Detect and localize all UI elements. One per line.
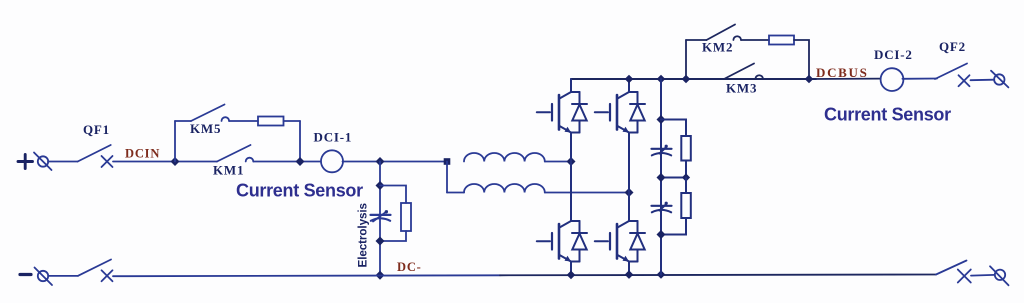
- node junction: [657, 115, 666, 124]
- Q3 channel bar: [558, 224, 561, 259]
- Q1 collector diagonal: [560, 92, 572, 99]
- Q4 emitter arrow: [623, 256, 630, 262]
- diode D4 triangle: [630, 234, 644, 250]
- wire: [447, 192, 464, 194]
- Q1 collector riser: [570, 79, 572, 92]
- inductor L1 (top): [464, 153, 545, 162]
- capacitor C2 bottom plate (curved): [652, 210, 671, 212]
- wire: [253, 161, 321, 163]
- node - (negative input terminal label): [20, 273, 31, 276]
- transistor Q2 (top-right IGBT with diode D2): [595, 79, 645, 193]
- terminal X3+ slash: [991, 71, 1008, 88]
- breaker QF2 contact x: [959, 75, 970, 86]
- wire: [902, 78, 937, 80]
- wire: [113, 161, 217, 163]
- Q4 collector riser: [628, 193, 630, 222]
- bottom rail left segment: [113, 274, 500, 277]
- resistor R5 (KM2 branch): [769, 36, 794, 45]
- wire: [48, 161, 78, 163]
- node junction: [657, 230, 666, 239]
- Q3 collector diagonal: [560, 221, 572, 228]
- wire resistor R3 branch: [661, 120, 686, 137]
- wire: [661, 161, 686, 178]
- Q2 emitter riser: [628, 133, 630, 193]
- wire: [48, 275, 78, 277]
- svg-text:DCIN: DCIN: [125, 146, 160, 160]
- wire KM2 riser: [685, 40, 687, 79]
- svg-text:DCI-1: DCI-1: [314, 130, 353, 145]
- Q1 emitter arrow: [565, 127, 572, 133]
- terminal X4- circle: [995, 270, 1005, 280]
- resistor R1 (KM5 pre-charge): [258, 117, 284, 126]
- diode D4 cathode bar: [630, 232, 645, 234]
- node junction rail KM2 riser: [682, 75, 691, 84]
- current sensor DCI-1 circle: [321, 150, 343, 172]
- breaker QF2- contact x: [958, 270, 971, 283]
- node junction: [296, 157, 305, 166]
- contactor KM1 fixed contact: [246, 158, 254, 162]
- diode D2 triangle: [630, 105, 644, 121]
- diode D1 cathode lead: [579, 92, 581, 104]
- node junction on bottom rail: [376, 271, 385, 280]
- Q3 gate lead: [537, 240, 550, 242]
- terminal X1+ slash: [34, 153, 52, 171]
- IGBT bridge: [537, 75, 691, 280]
- capacitor Electrolysis top plate: [371, 214, 391, 216]
- breaker QF1 blade: [78, 145, 111, 162]
- contactor KM3 blade: [724, 64, 754, 80]
- wire: [794, 40, 809, 79]
- DC link capacitor bank: [652, 79, 691, 275]
- breaker QF2- blade: [936, 261, 967, 275]
- bottom DC- rail: [113, 275, 936, 277]
- Q3 collector riser: [570, 162, 572, 222]
- Q3 bottom tie: [571, 261, 580, 263]
- Q2 bottom tie: [629, 132, 638, 134]
- wire fork riser: [446, 162, 448, 193]
- resistor R3: [681, 136, 691, 161]
- Q4 top tie: [629, 220, 638, 222]
- Q3 emitter diagonal: [560, 255, 572, 262]
- diode D2 anode lead: [637, 121, 639, 133]
- wire: [343, 161, 448, 163]
- Q4 gate lead: [595, 240, 608, 242]
- terminal X1+ circle: [38, 156, 48, 166]
- wire resistor branch top: [380, 186, 406, 204]
- Q4 gate bar: [609, 233, 611, 250]
- contactor KM5 fixed contact: [222, 117, 230, 121]
- Q3 gate bar: [551, 233, 553, 250]
- svg-text:DCBUS: DCBUS: [816, 65, 869, 80]
- terminal X2- slash: [35, 268, 53, 286]
- contactor KM1 blade: [217, 145, 251, 162]
- wire riser down: [299, 121, 301, 162]
- capacitor Electrolysis bottom plate (curved): [371, 218, 390, 221]
- svg-text:KM1: KM1: [213, 162, 244, 177]
- Q3 emitter riser: [570, 262, 572, 275]
- Q1 gate lead: [537, 111, 550, 113]
- Q3 emitter arrow: [565, 256, 572, 262]
- top DC+ rail: [571, 78, 816, 80]
- wire: [229, 120, 258, 122]
- svg-text:KM2: KM2: [702, 39, 733, 54]
- Q4 collector diagonal: [618, 221, 630, 228]
- contactor KM5 blade: [191, 105, 225, 122]
- Q4 channel bar: [616, 224, 619, 259]
- capacitor C2 top plate: [652, 205, 672, 207]
- svg-text:KM5: KM5: [190, 121, 221, 136]
- wire riser to KM5 branch: [174, 121, 176, 162]
- wire: [284, 120, 301, 122]
- svg-text:DCI-2: DCI-2: [874, 47, 913, 62]
- Q2 gate bar: [609, 104, 611, 121]
- Q2 emitter diagonal: [618, 126, 630, 133]
- capacitor C1 polarity arrow: [660, 147, 667, 154]
- node junction: [171, 157, 180, 166]
- current sensor DCI-2 circle: [881, 68, 904, 91]
- terminal X4- slash: [990, 266, 1009, 285]
- resistor R2 (discharge): [401, 203, 411, 231]
- breaker QF1- contact x: [102, 270, 113, 281]
- diode D2 cathode bar: [630, 103, 645, 105]
- wire electrolysis vertical: [379, 162, 381, 277]
- Q4 bottom tie: [629, 261, 638, 263]
- Q2 top tie: [629, 91, 638, 93]
- Q2 collector diagonal: [618, 92, 630, 99]
- Q1 channel bar: [558, 95, 561, 130]
- breaker QF1 contact x: [102, 156, 113, 167]
- wire KM5 branch lead: [175, 120, 191, 122]
- diode D1 anode lead: [579, 121, 581, 133]
- wire resistor R4 branch: [685, 178, 687, 194]
- inductor L2 (bottom): [464, 184, 545, 193]
- diode D4 anode lead: [637, 250, 639, 262]
- bottom-right output switch: [936, 261, 1009, 286]
- transistor Q4 (bottom-right IGBT with diode D4): [595, 193, 645, 275]
- transistor Q3 (bottom-left IGBT with diode D3): [537, 162, 587, 275]
- wire: [545, 192, 629, 194]
- node junction: [376, 181, 385, 190]
- svg-text:Electrolysis: Electrolysis: [357, 202, 370, 267]
- Q2 emitter arrow: [623, 127, 630, 133]
- svg-text:QF1: QF1: [83, 122, 110, 137]
- wire R4 bottom lead: [661, 218, 686, 235]
- breaker QF2 blade: [935, 64, 967, 80]
- node junction inductor fork: [444, 158, 451, 165]
- terminal X3+ circle: [994, 74, 1004, 84]
- node + (positive input terminal label): [18, 155, 33, 169]
- wire: [971, 79, 995, 82]
- wire resistor branch bottom: [380, 231, 406, 241]
- node junction right leg midpoint: [625, 188, 634, 197]
- diode D1 triangle: [572, 105, 586, 121]
- Q3 top tie: [571, 220, 580, 222]
- svg-text:Current Sensor: Current Sensor: [236, 181, 363, 201]
- output KM2/KM3 section: [686, 25, 1008, 125]
- node junction rail top-right leg: [625, 75, 634, 84]
- diode D3 anode lead: [579, 250, 581, 262]
- node junction mid right: [682, 173, 690, 181]
- diode D4 cathode lead: [637, 221, 639, 233]
- capacitor C2 polarity arrow: [660, 204, 667, 211]
- node junction left leg midpoint: [567, 157, 576, 166]
- breaker QF1- blade: [78, 260, 111, 276]
- node junction DC link: [376, 157, 385, 166]
- Q2 collector riser: [628, 79, 630, 92]
- diode D1 cathode bar: [572, 103, 587, 105]
- node junction mid: [657, 173, 666, 182]
- capacitor C1 bottom plate (curved): [652, 153, 671, 155]
- Q2 gate lead: [595, 111, 608, 113]
- contactor KM3 fixed contact: [755, 75, 763, 79]
- contactor KM2 fixed contact: [733, 36, 741, 40]
- capacitor Electrolysis polarity slash: [373, 211, 387, 221]
- transistor Q1 (top-left IGBT with diode D1): [537, 79, 587, 162]
- node junction: [376, 237, 385, 246]
- wire to DCBUS: [809, 78, 881, 80]
- wire: [545, 161, 571, 163]
- Q4 emitter diagonal: [618, 255, 630, 262]
- Q1 emitter riser: [570, 133, 572, 162]
- svg-text:Current Sensor: Current Sensor: [824, 105, 951, 125]
- wire KM2 branch lead: [686, 39, 707, 41]
- node junction rail cap bank: [657, 75, 666, 84]
- Q1 gate bar: [551, 104, 553, 121]
- wire: [741, 39, 769, 41]
- svg-text:QF2: QF2: [939, 39, 966, 54]
- wire: [971, 274, 995, 277]
- svg-text:DC-: DC-: [397, 260, 422, 274]
- diode D3 cathode lead: [579, 221, 581, 233]
- diode D2 cathode lead: [637, 92, 639, 104]
- Q4 emitter riser: [628, 262, 630, 275]
- wire cap bank vertical: [660, 79, 662, 275]
- Q1 emitter diagonal: [560, 126, 572, 133]
- Q1 top tie: [571, 91, 580, 93]
- node junction: [805, 75, 814, 84]
- diode D3 cathode bar: [572, 232, 587, 234]
- svg-text:KM3: KM3: [726, 80, 757, 95]
- node junction bottom rail legs: [567, 271, 576, 280]
- Q2 channel bar: [616, 95, 619, 130]
- contactor KM2 blade: [707, 25, 736, 41]
- diode D3 triangle: [572, 234, 586, 250]
- Q1 bottom tie: [571, 132, 580, 134]
- bottom rail right segment: [500, 274, 936, 277]
- terminal X2- circle: [38, 271, 48, 281]
- capacitor C1 top plate: [652, 148, 672, 150]
- resistor R4: [681, 193, 691, 218]
